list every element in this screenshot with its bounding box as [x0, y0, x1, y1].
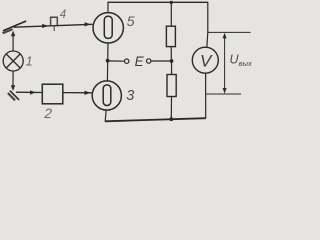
wire: junction to resistor R2	[171, 61, 173, 75]
light beam down from lamp	[11, 72, 15, 91]
tuning-fork chopper 4	[51, 17, 58, 31]
top rail wire	[107, 1, 208, 3]
mirror M1 top-left	[3, 21, 27, 33]
svg-text:1: 1	[26, 54, 33, 69]
light beam: mirror M2 to box 2	[16, 90, 42, 94]
wire: phototube junction to E terminal	[108, 60, 125, 62]
wire: R1 to divider junction	[170, 47, 172, 61]
junction: bottom rail / R2	[169, 117, 173, 121]
terminal of E (right)	[147, 59, 151, 63]
phototube 5	[93, 13, 123, 43]
voltmeter V	[192, 47, 218, 73]
wire: rail to resistor R1	[170, 2, 172, 26]
wire: phototube 3 to bottom rail	[105, 110, 106, 121]
svg-text:E: E	[135, 54, 145, 69]
svg-text:2: 2	[43, 105, 52, 121]
junction: rail / resistor branch	[170, 1, 173, 4]
box 2 (optical system)	[42, 84, 63, 104]
wire: R2 to bottom rail	[170, 97, 172, 120]
dimension arrow U out	[223, 33, 227, 94]
resistor R2	[167, 75, 176, 97]
phototube 3	[92, 81, 121, 110]
U out top leader line	[208, 31, 251, 33]
resistor R1	[166, 26, 175, 46]
lamp 1	[3, 51, 23, 71]
wire: voltmeter to bottom rail	[205, 73, 207, 118]
wire: phototube 5 to phototube 3	[106, 43, 109, 81]
light beam: box 2 to phototube 3	[63, 91, 92, 95]
light beam up from lamp	[11, 31, 15, 51]
mirror M2 bottom-left	[8, 91, 19, 101]
U out bottom leader line	[206, 93, 241, 95]
svg-text:3: 3	[126, 88, 134, 104]
terminal of E (left)	[125, 59, 129, 63]
junction: middle wire / E branch	[106, 59, 110, 63]
wire: top rail to voltmeter	[207, 2, 208, 47]
wire: E terminal to divider junction	[151, 60, 170, 62]
svg-text:V: V	[200, 52, 213, 71]
wire: phototube 5 anode to top rail	[107, 2, 109, 12]
svg-text:4: 4	[60, 9, 66, 21]
junction: divider / battery E	[170, 59, 174, 63]
svg-text:5: 5	[127, 13, 135, 29]
light beam: mirror M1 to chopper to phototube 5	[14, 22, 93, 28]
bottom rail wire	[105, 118, 206, 121]
